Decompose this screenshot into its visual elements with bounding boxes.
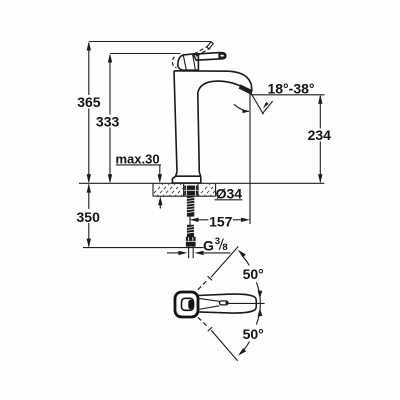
handle base bbox=[178, 54, 199, 70]
svg-text:365: 365 bbox=[77, 94, 101, 110]
dimension 157 line bbox=[190, 218, 251, 222]
spray adjust arc with arrow bbox=[234, 104, 249, 111]
svg-text:Ø34: Ø34 bbox=[216, 185, 243, 201]
top view: lever neck lines bbox=[198, 298, 220, 301]
base flange bottom bbox=[172, 182, 200, 184]
dimension 350 line bbox=[87, 184, 91, 248]
swing arc upper leader with arrow bbox=[243, 257, 249, 266]
svg-text:157: 157 bbox=[209, 213, 233, 229]
supply tails bbox=[188, 247, 190, 259]
spray angle leader with arrow bbox=[262, 101, 272, 114]
max.30 lower arrow below counter bbox=[159, 204, 161, 209]
shank centerline in gap bbox=[189, 217, 191, 225]
lever arm end cap bbox=[218, 53, 226, 59]
svg-text:G: G bbox=[203, 238, 214, 254]
swing arc arrow upper bbox=[258, 290, 263, 298]
raised handle dashed shaft bbox=[194, 46, 210, 57]
deck top extension line bbox=[79, 182, 324, 184]
dimension 234 line bbox=[318, 95, 322, 184]
faucet body column and spout outline bbox=[172, 71, 177, 183]
handle base facet lines bbox=[183, 55, 186, 70]
raised handle dashed back arc bbox=[172, 57, 176, 68]
top view: handle body square bbox=[175, 292, 198, 317]
top view: cartridge window bbox=[182, 298, 194, 310]
swing ray upper solid bbox=[211, 247, 238, 278]
bottom reference line (350 end) bbox=[83, 247, 204, 249]
svg-text:3: 3 bbox=[215, 236, 220, 247]
swing arc arrow lower bbox=[258, 308, 263, 316]
max.30 leader arrow to deck bbox=[159, 165, 161, 175]
svg-text:234: 234 bbox=[308, 127, 332, 143]
svg-text:350: 350 bbox=[77, 209, 101, 225]
swing ray upper break tick bbox=[208, 276, 212, 280]
extension line top (365) bbox=[89, 41, 211, 43]
svg-text:50°: 50° bbox=[243, 326, 264, 342]
svg-text:8: 8 bbox=[222, 242, 227, 253]
raised handle tip bbox=[207, 42, 214, 49]
handle lever arm bbox=[193, 53, 226, 61]
connection nut bbox=[186, 237, 196, 247]
dimension 333 line bbox=[108, 54, 112, 184]
base flange joint line bbox=[176, 175, 201, 177]
counter cross-section left slab bbox=[153, 183, 216, 196]
svg-text:18°-38°: 18°-38° bbox=[267, 80, 314, 96]
spout inner curve / body right edge bbox=[198, 81, 242, 183]
swing ray lower solid bbox=[211, 330, 237, 361]
swing ray lower break tick bbox=[208, 327, 212, 331]
swing arc lower leader with arrow bbox=[243, 342, 249, 351]
G 3/8 dimension arrows bbox=[167, 251, 231, 255]
swing arc bbox=[256, 282, 260, 324]
top view: lever slot bbox=[220, 301, 229, 305]
threaded shank upper section bbox=[187, 196, 194, 217]
dimension 365 line bbox=[87, 42, 91, 184]
aerator tip bbox=[239, 84, 253, 94]
spray angle ray bbox=[251, 93, 263, 114]
extension line (333) bbox=[110, 53, 180, 55]
top view: lever hinge bar bbox=[188, 300, 193, 309]
18-38 leader line bbox=[251, 94, 325, 96]
counter hatching bbox=[150, 183, 223, 197]
svg-text:max.30: max.30 bbox=[116, 151, 160, 166]
top view: lever arm bbox=[198, 294, 256, 313]
svg-text:333: 333 bbox=[96, 113, 120, 129]
spout tip extension line bbox=[249, 93, 251, 225]
top view: lever centerline bbox=[227, 302, 265, 304]
mounting nut under deck bbox=[184, 186, 198, 196]
swing ray lower dashed bbox=[198, 317, 209, 328]
swing ray upper dashed bbox=[198, 279, 209, 290]
svg-text:50°: 50° bbox=[243, 266, 264, 282]
threaded shank lower section bbox=[187, 225, 194, 237]
